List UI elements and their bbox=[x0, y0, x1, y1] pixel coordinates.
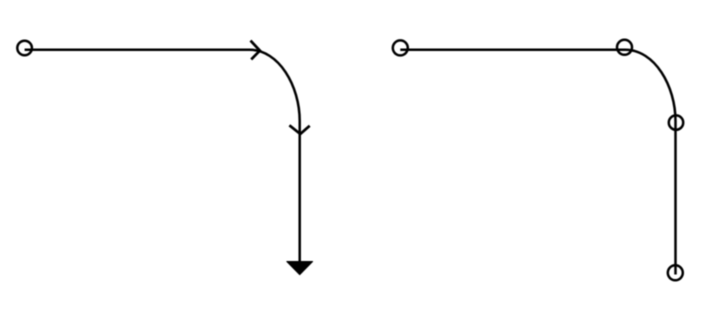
mid-arrow 1: open chevron marker on horizontal segment bbox=[251, 41, 260, 60]
node A: left start circle marker bbox=[17, 41, 32, 56]
wire: right link path (horizontal segment, rounded bend, vertical segment) bbox=[400, 50, 675, 275]
node C: right corner circle marker bbox=[617, 40, 632, 55]
node E: right end circle marker bbox=[668, 265, 683, 280]
wire: left link path (horizontal segment, rounded bend, vertical segment) bbox=[25, 50, 300, 263]
mid-arrow 2: open chevron marker on vertical segment bbox=[289, 125, 309, 134]
node B: right start circle marker bbox=[393, 40, 408, 55]
end-arrow: filled triangle arrowhead at bottom of left link bbox=[287, 262, 313, 275]
node D: right mid-curve circle marker bbox=[669, 115, 683, 129]
